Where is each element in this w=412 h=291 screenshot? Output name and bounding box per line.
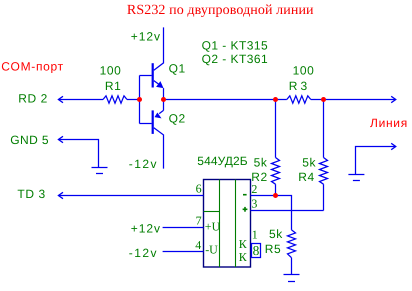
svg-text:Линия: Линия bbox=[370, 116, 408, 130]
svg-text:-U: -U bbox=[205, 243, 218, 257]
svg-text:5k: 5k bbox=[254, 156, 268, 170]
node dot R2 bottom bbox=[273, 193, 278, 198]
wire line return with right arrow bbox=[356, 147, 396, 175]
resistor R5 bbox=[265, 227, 296, 275]
node dot base bbox=[137, 97, 142, 102]
svg-text:К: К bbox=[239, 237, 248, 251]
svg-text:8: 8 bbox=[253, 243, 260, 258]
resistor R4 bbox=[298, 100, 327, 211]
svg-text:2: 2 bbox=[251, 182, 257, 196]
svg-text:100: 100 bbox=[100, 64, 122, 78]
svg-text:-12v: -12v bbox=[129, 246, 158, 260]
svg-text:GND 5: GND 5 bbox=[10, 133, 49, 147]
svg-text:Q1: Q1 bbox=[169, 61, 186, 75]
wire pin6 to TD3 with left arrow bbox=[58, 192, 63, 198]
svg-text:6: 6 bbox=[196, 182, 202, 196]
svg-text:Q2: Q2 bbox=[169, 112, 186, 126]
svg-text:+U: +U bbox=[205, 220, 221, 234]
minus sign pin2 bbox=[243, 194, 247, 196]
svg-text:-12v: -12v bbox=[129, 157, 158, 171]
svg-text:7: 7 bbox=[196, 213, 202, 227]
svg-text:R3: R3 bbox=[289, 79, 311, 93]
svg-text:+12v: +12v bbox=[131, 221, 161, 235]
wire GND5 with left arrow bbox=[58, 136, 63, 142]
ground (line return) bbox=[348, 175, 364, 181]
svg-text:+12v: +12v bbox=[131, 30, 161, 44]
svg-text:100: 100 bbox=[293, 64, 315, 78]
ground (R5) bbox=[284, 275, 300, 282]
svg-text:R4: R4 bbox=[298, 170, 315, 184]
svg-text:RD 2: RD 2 bbox=[18, 92, 48, 106]
node dot R2 top bbox=[273, 97, 278, 102]
svg-text:COM-порт: COM-порт bbox=[1, 60, 64, 74]
svg-text:R1: R1 bbox=[105, 79, 122, 93]
svg-text:544УД2Б: 544УД2Б bbox=[197, 154, 248, 168]
wire pin4 bbox=[163, 251, 204, 253]
svg-text:4: 4 bbox=[195, 238, 201, 252]
wire main rail bbox=[164, 99, 287, 101]
transistor Q1 bbox=[140, 27, 186, 99]
svg-text:RS232 по двупроводной линии: RS232 по двупроводной линии bbox=[127, 3, 314, 18]
wire pin3 bbox=[251, 210, 324, 212]
svg-text:К: К bbox=[239, 250, 248, 264]
wire pin2 bbox=[251, 196, 292, 230]
svg-text:5k: 5k bbox=[302, 156, 316, 170]
svg-text:Q1 - KT315: Q1 - KT315 bbox=[202, 38, 269, 52]
wire R1 to base node bbox=[127, 99, 140, 101]
wire RD2 with left arrow bbox=[58, 96, 63, 102]
svg-text:Q2 - KT361: Q2 - KT361 bbox=[202, 52, 269, 66]
wire base vertical bbox=[139, 76, 141, 124]
svg-text:1: 1 bbox=[252, 228, 258, 242]
wire rail to line arrow bbox=[311, 99, 396, 101]
pin 8 box bbox=[252, 244, 261, 258]
resistor R2 bbox=[251, 100, 279, 196]
plus sign pin3 bbox=[243, 207, 248, 212]
resistor R1 bbox=[103, 96, 127, 103]
ground (GND5) bbox=[92, 168, 108, 174]
resistor R3 bbox=[287, 96, 311, 103]
svg-text:TD 3: TD 3 bbox=[17, 187, 45, 201]
transistor Q2 bbox=[140, 100, 186, 169]
svg-text:5k: 5k bbox=[269, 227, 283, 241]
wire pin7 bbox=[163, 227, 204, 229]
node dot emitters bbox=[161, 97, 166, 102]
svg-text:R5: R5 bbox=[265, 242, 282, 256]
node dot R4 top bbox=[321, 97, 326, 102]
svg-text:3: 3 bbox=[251, 197, 257, 211]
